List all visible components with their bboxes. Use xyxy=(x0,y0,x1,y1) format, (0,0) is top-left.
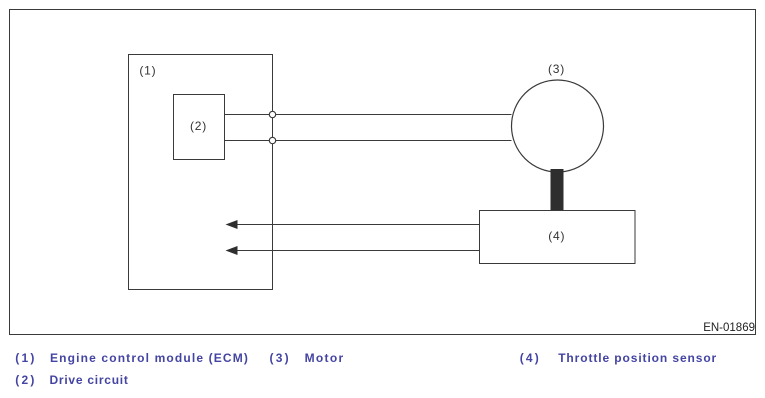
svg-text:(3): (3) xyxy=(270,351,291,365)
svg-text:(3): (3) xyxy=(548,62,565,76)
svg-text:Motor: Motor xyxy=(305,351,345,365)
svg-text:(1): (1) xyxy=(139,64,156,78)
svg-text:(2): (2) xyxy=(15,373,36,387)
svg-text:Throttle position sensor: Throttle position sensor xyxy=(558,351,717,365)
svg-text:EN-01869: EN-01869 xyxy=(703,322,755,334)
svg-text:Drive circuit: Drive circuit xyxy=(50,373,129,387)
svg-text:Engine control module (ECM): Engine control module (ECM) xyxy=(50,351,249,365)
svg-text:(1): (1) xyxy=(15,351,36,365)
svg-text:(4): (4) xyxy=(520,351,541,365)
svg-text:(4): (4) xyxy=(548,229,565,243)
svg-text:(2): (2) xyxy=(190,119,207,133)
